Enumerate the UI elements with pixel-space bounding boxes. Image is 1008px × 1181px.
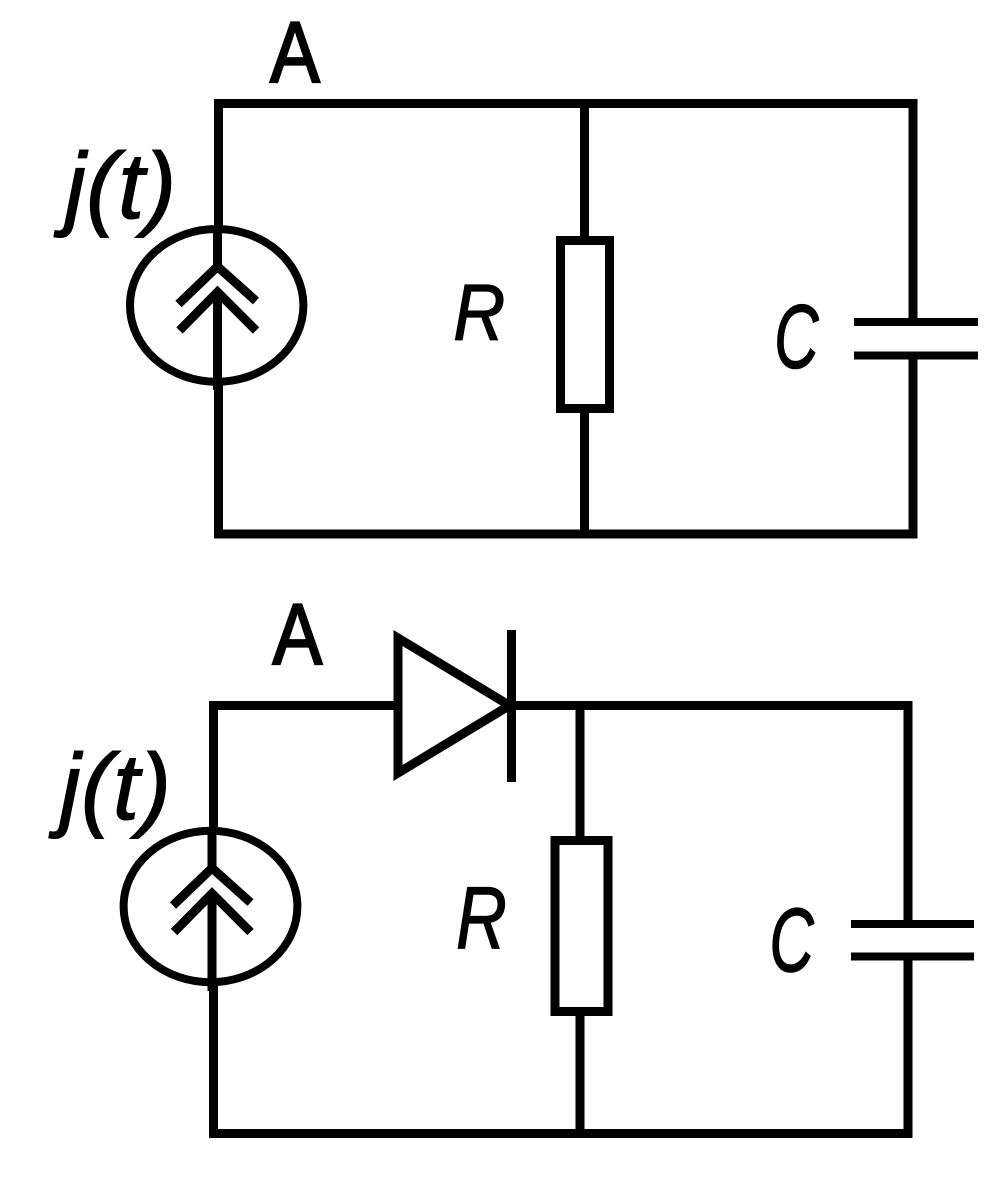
wire: middle branch upper xyxy=(580,104,589,241)
wire: middle branch lower xyxy=(576,1012,585,1138)
svg-text:A: A xyxy=(270,5,320,101)
diode D1 cathode bar xyxy=(507,630,516,782)
svg-text:j(t): j(t) xyxy=(53,134,176,239)
label R xyxy=(456,868,507,966)
current source lower chevron xyxy=(174,894,251,933)
current source J1 circle xyxy=(124,831,298,982)
capacitor C top plate xyxy=(851,920,974,928)
wire: middle branch upper xyxy=(576,706,585,841)
current source J1 circle xyxy=(130,229,303,382)
wire: right vertical lower xyxy=(909,356,918,539)
current source lower chevron xyxy=(180,292,257,331)
wire: right vertical upper xyxy=(909,99,918,322)
wire: top horizontal right of diode xyxy=(512,701,913,710)
label j(t) xyxy=(48,735,171,840)
wire: vertical inside source, lower xyxy=(213,294,222,390)
resistor R body xyxy=(561,241,610,409)
label R xyxy=(453,269,505,358)
wire: right vertical upper xyxy=(904,701,913,924)
svg-text:R: R xyxy=(456,868,507,966)
label C xyxy=(770,890,815,991)
label j(t) xyxy=(53,134,176,239)
wire: top horizontal left of diode xyxy=(209,701,398,710)
resistor R body xyxy=(555,841,608,1012)
svg-text:R: R xyxy=(453,269,505,358)
wire: vertical inside source, upper xyxy=(208,827,217,869)
capacitor C bottom plate xyxy=(851,953,974,961)
diode D1 triangle (anode) xyxy=(398,638,510,773)
wire: vertical inside source, upper xyxy=(213,225,222,268)
wire: left vertical through source xyxy=(214,99,223,539)
node A label xyxy=(273,587,323,683)
node A label xyxy=(270,5,320,101)
svg-text:j(t): j(t) xyxy=(48,735,171,840)
capacitor C bottom plate xyxy=(854,352,978,360)
current source upper chevron xyxy=(179,267,257,305)
wire: top horizontal (node A net) xyxy=(214,99,918,108)
svg-text:C: C xyxy=(774,287,819,388)
capacitor C top plate xyxy=(854,318,978,326)
current source upper chevron xyxy=(173,868,251,906)
wire: left vertical through source xyxy=(209,701,218,1138)
svg-text:A: A xyxy=(273,587,323,683)
wire: vertical inside source, lower xyxy=(208,896,217,992)
svg-text:C: C xyxy=(770,890,815,991)
wire: bottom horizontal xyxy=(209,1129,913,1138)
wire: bottom horizontal xyxy=(214,530,918,539)
label C xyxy=(774,287,819,388)
wire: middle branch lower xyxy=(580,409,589,538)
wire: right vertical lower xyxy=(904,957,913,1139)
